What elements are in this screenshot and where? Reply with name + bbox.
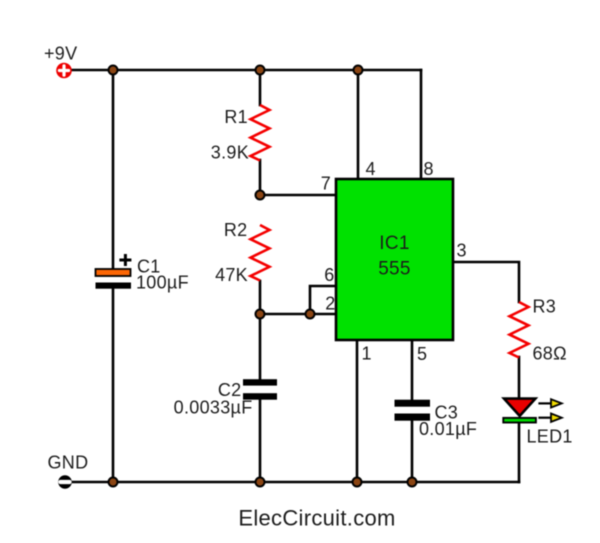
wire pin 4 xyxy=(357,70,360,180)
wire top rail xyxy=(64,69,421,72)
resistor R3 xyxy=(510,302,529,358)
svg-text:4: 4 xyxy=(366,159,376,179)
ground terminal GND xyxy=(58,475,72,489)
svg-text:R1: R1 xyxy=(224,107,248,127)
svg-text:3.9K: 3.9K xyxy=(211,143,249,163)
svg-text:7: 7 xyxy=(321,174,331,194)
wire C2 top lead xyxy=(259,314,262,380)
wire R3 to LED xyxy=(518,357,521,399)
svg-text:5: 5 xyxy=(417,344,427,364)
svg-text:6: 6 xyxy=(324,265,334,285)
wire bottom ground rail xyxy=(65,481,519,484)
svg-text:IC1: IC1 xyxy=(379,233,409,254)
wire pin 2 xyxy=(260,313,337,316)
svg-text:R3: R3 xyxy=(533,297,557,317)
svg-text:3: 3 xyxy=(457,241,467,261)
LED emission arrow 2 xyxy=(540,414,562,422)
wire pin 8 xyxy=(420,70,423,180)
LED LED1 xyxy=(503,399,536,423)
wire left rail upper (to C1) xyxy=(112,70,115,270)
junction node B (R2/C2/pin2) xyxy=(256,310,265,319)
junction ground pin1 branch xyxy=(353,478,362,487)
svg-text:ElecCircuit.com: ElecCircuit.com xyxy=(238,506,395,531)
resistor R1 xyxy=(251,105,270,161)
svg-text:47K: 47K xyxy=(215,265,248,285)
svg-text:68Ω: 68Ω xyxy=(533,344,567,364)
junction ground C2 branch xyxy=(256,478,265,487)
wire pin 5 / C3 top lead xyxy=(411,339,414,400)
resistor R2 xyxy=(251,225,270,281)
wire C3 bottom lead xyxy=(411,420,414,482)
wire R1 to node A xyxy=(259,160,262,196)
svg-text:GND: GND xyxy=(48,453,89,473)
capacitor C1 (electrolytic, polarized) xyxy=(96,256,132,289)
op-amp U1 / timer IC1 555 body xyxy=(336,179,453,340)
wire C2 bottom lead xyxy=(259,399,262,482)
svg-text:1: 1 xyxy=(362,344,372,364)
capacitor C2 xyxy=(243,379,277,400)
svg-text:R2: R2 xyxy=(224,220,248,240)
wire pin 6 xyxy=(310,286,337,314)
svg-text:8: 8 xyxy=(424,159,434,179)
wire R1 top lead xyxy=(259,70,262,105)
junction ground C3 branch xyxy=(408,478,417,487)
svg-text:0.01µF: 0.01µF xyxy=(419,419,477,439)
wire LED to ground rail xyxy=(518,422,521,482)
junction ground left xyxy=(109,478,118,487)
junction top-left rail xyxy=(109,66,118,75)
junction pin6-pin2 tie xyxy=(306,310,315,319)
svg-text:100µF: 100µF xyxy=(136,273,189,293)
junction node A (R1/R2/pin7) xyxy=(256,191,265,200)
svg-text:555: 555 xyxy=(378,259,411,280)
junction top pin4 branch xyxy=(354,66,363,75)
wire pin 3 to R3 xyxy=(452,262,519,302)
wire left rail lower (C1 to ground rail) xyxy=(112,288,115,482)
wire R2 bottom lead xyxy=(259,281,262,315)
battery positive terminal +9V xyxy=(56,63,72,79)
capacitor C3 xyxy=(395,400,431,421)
wire pin 1 xyxy=(356,339,359,482)
LED emission arrow 1 xyxy=(540,399,562,407)
svg-text:+9V: +9V xyxy=(44,44,77,64)
svg-text:0.0033µF: 0.0033µF xyxy=(174,398,253,418)
wire pin 7 xyxy=(260,194,337,197)
svg-text:2: 2 xyxy=(325,294,335,314)
svg-text:LED1: LED1 xyxy=(527,427,573,447)
junction top R1 branch xyxy=(256,66,265,75)
